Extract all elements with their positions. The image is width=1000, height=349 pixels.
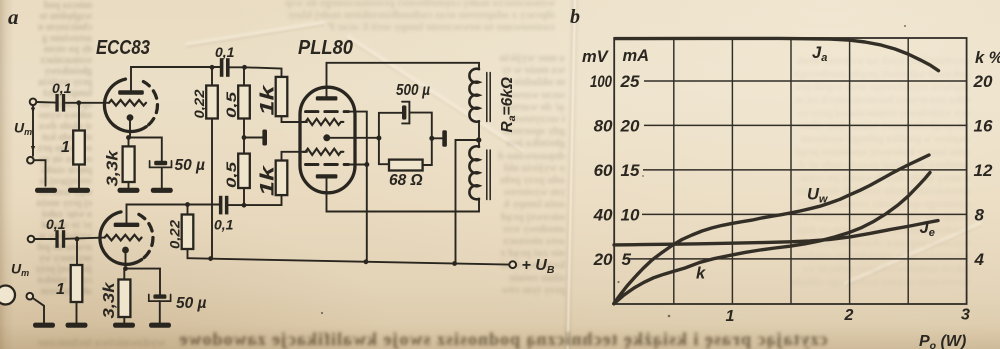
svg-text:68 Ω: 68 Ω bbox=[389, 172, 423, 189]
svg-text:20: 20 bbox=[593, 250, 613, 269]
svg-text:1: 1 bbox=[56, 281, 65, 298]
svg-text:1k: 1k bbox=[258, 164, 279, 196]
svg-text:16: 16 bbox=[974, 116, 993, 135]
svg-text:15: 15 bbox=[621, 161, 640, 180]
svg-text:3,3k: 3,3k bbox=[105, 149, 122, 187]
svg-text:50 µ: 50 µ bbox=[175, 157, 206, 174]
svg-text:5: 5 bbox=[622, 250, 632, 269]
svg-text:0,5: 0,5 bbox=[223, 162, 239, 188]
svg-text:3,3k: 3,3k bbox=[101, 281, 118, 319]
svg-text:Um: Um bbox=[14, 120, 32, 138]
svg-text:8: 8 bbox=[975, 205, 985, 224]
svg-text:mA: mA bbox=[623, 47, 650, 65]
svg-text:0,1: 0,1 bbox=[46, 216, 66, 232]
svg-text:b: b bbox=[570, 6, 580, 28]
svg-text:80: 80 bbox=[594, 116, 613, 135]
svg-text:a: a bbox=[8, 5, 19, 29]
svg-text:PLL80: PLL80 bbox=[298, 37, 353, 59]
svg-text:20: 20 bbox=[620, 116, 640, 135]
svg-text:mV: mV bbox=[582, 48, 610, 66]
svg-text:k: k bbox=[696, 265, 706, 283]
svg-text:3: 3 bbox=[961, 307, 970, 324]
svg-text:100: 100 bbox=[590, 72, 612, 91]
svg-text:0,1: 0,1 bbox=[214, 217, 234, 233]
svg-text:k %: k % bbox=[975, 49, 1000, 67]
svg-text:10: 10 bbox=[621, 205, 640, 224]
svg-text:0,1: 0,1 bbox=[52, 80, 72, 96]
svg-text:500 µ: 500 µ bbox=[396, 82, 430, 99]
svg-text:Ja: Ja bbox=[812, 44, 827, 64]
svg-text:50 µ: 50 µ bbox=[176, 295, 207, 312]
svg-text:20: 20 bbox=[973, 72, 993, 91]
svg-text:2: 2 bbox=[844, 307, 854, 324]
svg-text:0,5: 0,5 bbox=[223, 92, 239, 118]
svg-text:40: 40 bbox=[593, 205, 613, 224]
svg-text:1: 1 bbox=[726, 308, 735, 325]
svg-text:0,1: 0,1 bbox=[215, 44, 235, 60]
svg-text:25: 25 bbox=[620, 72, 640, 91]
svg-text:Uw: Uw bbox=[807, 186, 829, 206]
svg-text:+ UB: + UB bbox=[522, 257, 555, 276]
svg-text:4: 4 bbox=[974, 250, 985, 269]
svg-text:0,22: 0,22 bbox=[167, 220, 183, 249]
svg-text:ECC83: ECC83 bbox=[96, 37, 150, 59]
svg-text:0,22: 0,22 bbox=[191, 89, 207, 118]
svg-text:1: 1 bbox=[61, 139, 70, 156]
svg-text:Po (W): Po (W) bbox=[919, 333, 966, 349]
svg-text:Ra=6kΩ: Ra=6kΩ bbox=[499, 77, 518, 132]
svg-text:12: 12 bbox=[974, 161, 993, 180]
svg-text:Um: Um bbox=[11, 261, 29, 279]
svg-text:60: 60 bbox=[594, 161, 613, 180]
svg-text:1k: 1k bbox=[258, 83, 279, 115]
